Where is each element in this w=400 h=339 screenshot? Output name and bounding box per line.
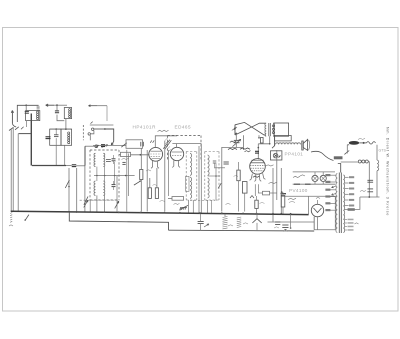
ground mark small: [250, 196, 254, 199]
node L2 top: [56, 104, 58, 106]
wire arrow to L2: [46, 104, 67, 106]
wire drop x85: [84, 166, 86, 212]
resistor R1 pill: [119, 152, 149, 156]
resistor R4: [155, 168, 158, 198]
switch S6 bottom left: [25, 215, 29, 221]
tube V2 ED465: [170, 147, 183, 160]
choke coil right: [377, 160, 379, 197]
lamp LP2: [320, 172, 326, 184]
label R2 value: [146, 170, 151, 171]
tube V1 cathode legs: [151, 161, 159, 169]
tube V4 rectifier: [311, 197, 323, 216]
wire T3 drops: [208, 200, 212, 214]
wire dark horizontal to band switch: [32, 165, 66, 167]
wire L3 drop: [55, 145, 57, 165]
resistor R9: [281, 192, 285, 214]
resistor R11 hatched vertical: [237, 217, 248, 228]
svg-text:ED465: ED465: [175, 125, 192, 130]
wire hv right angle: [360, 196, 380, 198]
gang link dashed: [82, 125, 84, 140]
wire vert x216: [215, 164, 217, 201]
coil ticks above box1: [37, 106, 40, 110]
IF transformer T1 dashed can: [90, 150, 119, 200]
capacitor C11: [274, 222, 280, 228]
trimmer T2 rect: [186, 176, 189, 191]
wire T4 bottom drop: [258, 136, 269, 144]
wire mixer top: [222, 147, 243, 149]
trimmer TC1 circle: [92, 128, 106, 130]
node antenna junction: [25, 104, 27, 106]
wire gang top row: [90, 124, 114, 126]
wire top-left horizontal: [17, 105, 38, 122]
output transformer T5 box: [273, 123, 289, 136]
wire T1 mid rail: [94, 175, 135, 177]
antenna A arrow: [11, 111, 13, 124]
node T4 drop: [269, 143, 271, 145]
capacitor C4 blob: [72, 164, 77, 166]
switch at IFT2 right: [218, 183, 221, 188]
wire box1 bottom stub: [26, 121, 28, 127]
wire gang bottom row: [85, 145, 95, 147]
wire vert x117: [116, 176, 118, 212]
resistor R12: [255, 196, 265, 214]
wire frame drop: [243, 135, 245, 150]
switch diagonal right of V1: [163, 140, 171, 150]
wire L4 drop: [64, 145, 66, 165]
power cord curve: [311, 151, 334, 160]
bus second line: [69, 212, 168, 230]
switch S2 contact: [65, 180, 69, 188]
node frame bottom: [235, 133, 237, 135]
coil L5b: [103, 153, 104, 166]
node V3 top: [258, 147, 260, 149]
label 10uF: [360, 190, 366, 191]
mains squiggle: [367, 142, 376, 145]
wire V3 leg drops: [255, 184, 258, 196]
heater rail bottom: [293, 183, 335, 185]
power transformer T6 left winding: [336, 174, 337, 233]
coil L1 circles: [37, 111, 39, 120]
T6 right taps: [345, 176, 355, 206]
wire top feed: [341, 161, 370, 164]
bus junction dots: [76, 211, 292, 215]
heater rail top: [293, 171, 335, 173]
grid wire tube1 top: [155, 136, 177, 147]
capacitor C9: [367, 189, 373, 192]
wire under box2: [57, 115, 64, 121]
wire vert x127 pair: [127, 150, 129, 212]
coil L7: [190, 153, 192, 175]
grid tick marks: [150, 140, 154, 142]
label 230V dark: [334, 156, 343, 159]
wire L3 L4 top rail: [50, 128, 72, 130]
label 600ohm handwritten: [288, 198, 296, 202]
coil L5a: [94, 153, 96, 166]
capacitor C12: [282, 225, 288, 232]
ground stub left: [9, 213, 13, 227]
wire vert x168: [167, 150, 169, 196]
label 70k: [174, 203, 180, 204]
label R8 handwritten: [269, 182, 277, 183]
label tap dark: [348, 208, 355, 211]
capacitor dark bar under PV label: [281, 193, 287, 195]
capacitor small eq inside can: [106, 160, 111, 162]
connector dots row: [358, 160, 368, 163]
label R4 value: [160, 200, 165, 201]
tube V2 cathode legs: [172, 160, 180, 167]
label 20uuF handwritten: [158, 130, 169, 131]
coil L8: [190, 177, 192, 198]
coil L3 box: [50, 129, 61, 145]
svg-text:PV4100: PV4100: [289, 188, 308, 193]
wire T6 primary top: [338, 164, 341, 173]
wire x314 drop: [313, 217, 315, 230]
capacitor C7: [224, 162, 229, 164]
bus earth main: [11, 211, 309, 214]
wire drop x77: [76, 168, 78, 212]
wire earth pair vertical: [11, 127, 13, 211]
node gang bottom: [95, 145, 98, 148]
label CV3 dark scribble: [230, 141, 237, 142]
frame arrow marks: [232, 127, 237, 130]
label Bz handwritten: [293, 175, 305, 178]
dashed band switch link: [80, 199, 120, 201]
wire drop x69: [68, 168, 70, 212]
transformer T6 core: [339, 173, 341, 234]
resistor R6: [237, 162, 240, 212]
wire plug to lamp rail: [359, 142, 366, 144]
lamp LP1: [312, 172, 318, 184]
coil L9: [208, 155, 210, 175]
ground G3 arrow: [252, 214, 261, 231]
tube V3 legs: [250, 173, 266, 181]
label 70A: [253, 176, 260, 177]
capacitor C8: [367, 180, 373, 182]
band switch arrow 1: [84, 200, 88, 207]
wire T1 top feed: [93, 143, 127, 147]
speaker LS: [302, 139, 310, 150]
T6 bottom filament taps: [345, 219, 359, 231]
svg-text:GTS: GTS: [379, 149, 387, 153]
IF transformer T3 dashed box: [205, 152, 219, 201]
wire gang corner down arrow: [105, 129, 114, 145]
switch S4 diagonal: [134, 181, 141, 186]
wire C4 link: [66, 165, 85, 167]
IFT2 mid rail: [208, 175, 220, 177]
capacitor C6 in T3: [213, 161, 217, 168]
wire mains right vert: [376, 145, 378, 160]
coupling transformer T4: [265, 123, 274, 136]
coil L6b: [103, 181, 105, 195]
wire vert x165: [164, 141, 166, 212]
capacitor C2 blob: [55, 105, 59, 113]
wire dark down from box1: [30, 114, 32, 166]
arrow gang bottom: [102, 145, 108, 148]
svg-text:PP4101: PP4101: [285, 152, 304, 157]
bus right second segment: [268, 221, 315, 223]
transformer T6 right winding: [343, 175, 344, 232]
wire V2 plate to T3: [177, 143, 202, 145]
wire V4 bottom lead: [317, 217, 319, 230]
trimmer tick: [91, 122, 93, 124]
wire hv down: [345, 197, 360, 209]
switch S3 contact: [84, 197, 88, 205]
T6 left taps: [325, 174, 336, 211]
shield hatch left: [165, 138, 171, 152]
wire switch horizontal: [19, 133, 32, 135]
coil L4 box: [61, 129, 72, 145]
label above plug: [358, 138, 365, 139]
label grid scribble: [266, 165, 274, 166]
label R3 value: [153, 184, 157, 185]
wire vert x147: [146, 150, 148, 212]
wire vert x221 left rail: [221, 147, 223, 212]
IF transformer T2 dashed box: [186, 152, 197, 201]
wire vert x273: [272, 168, 274, 222]
wire heater left: [276, 150, 278, 200]
capacitor Cg box: [126, 140, 143, 149]
wire switch drop vertical: [17, 134, 19, 212]
capacitor C13 vertical: [284, 214, 291, 229]
node heater: [281, 191, 283, 193]
resistor R7 rect: [242, 182, 247, 212]
node hv: [368, 196, 370, 198]
tube V1 HP4101R: [149, 147, 163, 161]
wire gang drop dark: [84, 146, 86, 166]
wire arrow third top: [89, 105, 108, 121]
svg-text:HP4101R: HP4101R: [133, 125, 157, 130]
resistor R2: [140, 148, 143, 211]
coil box2: [64, 108, 71, 119]
wire into V3 top: [257, 144, 259, 160]
resistor R10 hatched vertical: [223, 214, 234, 231]
capacitor CT1: [112, 155, 116, 164]
label 2Mohm: [122, 158, 129, 159]
wire T1 verticals: [90, 162, 114, 212]
wire right rail x369: [368, 162, 370, 198]
switch S5 mains: [344, 145, 349, 155]
label R6 value: [234, 175, 239, 176]
speaker voice coil row: [276, 143, 301, 145]
wire T3 out: [215, 167, 226, 169]
rectifier box outline: [281, 192, 335, 229]
coil L10: [208, 178, 210, 198]
coil L6a: [94, 181, 96, 195]
capacitor C3 dark blob: [46, 137, 51, 139]
svg-text:Nm. Direkt W. Wechselstrom, 3: Nm. Direkt W. Wechselstrom, 3 Kreise: [386, 127, 390, 216]
trimmer TC2 circle: [88, 131, 94, 141]
ground G1 hatched: [180, 205, 189, 211]
T6 left arrows: [332, 186, 337, 195]
wire box2 drop: [55, 119, 67, 130]
capacitor C1 blob: [25, 111, 29, 113]
shield dashed box tube2: [168, 136, 202, 162]
switch S1 antenna: [9, 127, 24, 131]
capacitor CT2: [112, 181, 116, 190]
T5 secondary box: [275, 136, 292, 141]
resistor R5 pill: [168, 197, 184, 201]
label 10-4 uF dark: [228, 148, 251, 152]
variable capacitor CV3: [232, 134, 240, 148]
tube V3 output pentode: [250, 159, 266, 175]
capacitor C10 below bus: [198, 214, 209, 230]
plug P1: [347, 141, 359, 145]
wire T5 left dark: [272, 135, 275, 148]
label 30 handwritten: [226, 203, 231, 204]
node plug: [363, 142, 365, 144]
bus third line: [169, 229, 315, 232]
dashed link 2: [190, 200, 215, 202]
ground G2 hatched: [180, 207, 187, 209]
capacitor C5: [122, 162, 125, 164]
wire vert x281: [280, 168, 282, 214]
band switch arrow 2: [115, 201, 119, 208]
fuse box with lamp: [271, 151, 282, 160]
frame antenna crossed loop: [235, 122, 266, 135]
wire T2 drops: [189, 200, 194, 214]
resistor R8 pill: [258, 191, 277, 195]
wire vert pair x199 x201: [199, 144, 201, 214]
wire V2 top: [172, 144, 176, 148]
resistor R3: [148, 178, 151, 198]
small resistor near frame: [258, 135, 263, 143]
grid capacitor blob V3: [255, 150, 259, 152]
antenna lead-in wire: [12, 124, 16, 127]
rail dark segments: [294, 183, 311, 185]
tuned circuit box1: [26, 105, 40, 120]
